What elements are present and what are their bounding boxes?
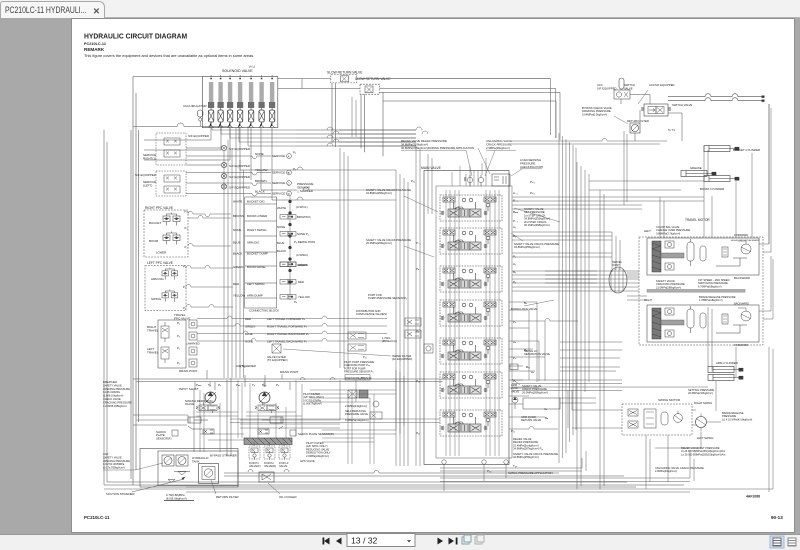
svg-text:LEFT TRAVEL BACKWARD Pₓ: LEFT TRAVEL BACKWARD Pₓ xyxy=(267,340,307,344)
svg-text:(A SPCL): (A SPCL) xyxy=(296,205,308,209)
PPC valve right (bucket/boom) xyxy=(144,206,188,257)
travel PPC valve T1 xyxy=(147,313,190,368)
svg-text:YELLOW: YELLOW xyxy=(233,294,245,298)
svg-text:LEFT SWING: LEFT SWING xyxy=(697,436,713,440)
title block xyxy=(84,33,783,520)
svg-text:BOOM RAISE: BOOM RAISE xyxy=(247,265,265,269)
connector joint J4 xyxy=(280,262,308,267)
svg-text:(A SPEC): (A SPEC) xyxy=(296,253,308,257)
boom lock holding box xyxy=(523,398,560,409)
node junction dots table xyxy=(288,200,291,284)
service valve block SV1 (right) xyxy=(143,133,210,165)
svg-text:RETURN VALVE: RETURN VALVE xyxy=(521,418,541,422)
last-page button xyxy=(449,538,458,545)
svg-text:BYPASS STRAINER: BYPASS STRAINER xyxy=(210,454,237,458)
svg-text:BROWN P₁: BROWN P₁ xyxy=(297,215,311,219)
solenoid S2 xyxy=(218,75,224,128)
svg-text:GREEN: GREEN xyxy=(245,325,255,329)
PPC valve left (arm/swing) xyxy=(145,261,187,311)
svg-text:HYDRAULIC CIRCUIT DIAGRAM: HYDRAULIC CIRCUIT DIAGRAM xyxy=(84,33,187,40)
travel motor assembly xyxy=(639,218,763,345)
svg-text:P₂: P₂ xyxy=(183,265,186,269)
annotation cap safety xyxy=(103,452,163,470)
svg-text:0.86MPa{3.7kgf/cm²}: 0.86MPa{3.7kgf/cm²} xyxy=(656,231,680,235)
pilot filter symbols xyxy=(348,390,357,398)
svg-text:REMARK: REMARK xyxy=(84,47,105,52)
svg-text:SWING: SWING xyxy=(151,297,162,301)
svg-text:TRAVEL: TRAVEL xyxy=(147,351,159,355)
svg-text:RIGHT TRAVEL FORWARD Pₓ: RIGHT TRAVEL FORWARD Pₓ xyxy=(267,325,307,329)
S/F coupler C xyxy=(221,173,291,185)
solenoid S7 xyxy=(269,75,275,128)
bucket cylinder xyxy=(704,146,760,153)
svg-text:To T1: To T1 xyxy=(668,128,675,132)
svg-text:P₂: P₂ xyxy=(293,167,297,171)
wire left ppc rows xyxy=(186,266,233,308)
main valve bottom ports xyxy=(442,460,508,464)
view-mode single xyxy=(788,538,796,546)
annotation safety valve set xyxy=(524,207,550,227)
svg-text:DRAIN PORT: DRAIN PORT xyxy=(179,369,198,373)
pump P1 xyxy=(205,392,216,403)
regulator R1 xyxy=(196,403,220,414)
svg-text:VALVE(F): VALVE(F) xyxy=(249,464,261,468)
svg-text:VALVE(R): VALVE(R) xyxy=(264,464,276,468)
svg-text:Bₐ: Bₐ xyxy=(545,416,549,420)
solenoid S4 xyxy=(237,75,243,128)
S/F coupler B xyxy=(221,162,297,175)
wire service rows xyxy=(186,148,271,196)
boom cylinder pair xyxy=(681,166,739,191)
travel motor unit R xyxy=(647,305,759,347)
pilot line label table xyxy=(245,197,277,308)
next-page button xyxy=(438,538,444,545)
switch valve SW1 xyxy=(641,103,693,116)
svg-text:{1.868.10kgf/cm²}: {1.868.10kgf/cm²} xyxy=(103,394,123,398)
svg-text:PC210LC-11: PC210LC-11 xyxy=(84,515,110,520)
annotation breather xyxy=(103,380,132,408)
annotation unloading valve xyxy=(485,139,516,176)
svg-text:SOLENOID VALVE: SOLENOID VALVE xyxy=(222,69,253,73)
svg-text:P₂: P₂ xyxy=(513,280,517,284)
connector joint J2 xyxy=(277,225,309,236)
svg-text:This figure covers the equipme: This figure covers the equipment and dev… xyxy=(84,53,254,58)
svg-text:26.0MPa{265kgf/cm²}: 26.0MPa{265kgf/cm²} xyxy=(366,241,392,245)
svg-text:LOWER: LOWER xyxy=(156,251,166,255)
wire table risers xyxy=(224,128,290,378)
svg-text:WHITE: WHITE xyxy=(277,206,286,210)
annotation setting pressure xyxy=(688,388,715,395)
wire mv right port stubs xyxy=(509,302,622,429)
svg-text:P₄: P₄ xyxy=(177,321,181,325)
wire srv2 lower run xyxy=(383,101,556,138)
center swivel joint xyxy=(609,260,627,293)
svg-text:Pₚ: Pₚ xyxy=(276,383,280,387)
distributor spool D2 xyxy=(348,344,366,351)
page-copy icon 2 xyxy=(475,535,484,544)
main valve module arm xyxy=(440,410,502,436)
solenoid S5 xyxy=(248,75,254,128)
svg-text:BLUE: BLUE xyxy=(245,332,253,336)
svg-text:CHECK VALVE: CHECK VALVE xyxy=(103,397,121,401)
svg-text:34.8MPa{287kgf/cm²} Pₘ: 34.8MPa{287kgf/cm²} Pₘ xyxy=(513,447,543,451)
svg-text:△ MARKED: △ MARKED xyxy=(297,189,314,193)
wire top-left feed xyxy=(131,77,202,480)
PPC pair swing xyxy=(162,290,178,302)
svg-text:MAIN VALVE: MAIN VALVE xyxy=(421,166,442,170)
svg-text:PUMP-PRESSURE SENSOR Pₚ: PUMP-PRESSURE SENSOR Pₚ xyxy=(368,296,408,300)
svg-text:GREEN: GREEN xyxy=(298,263,308,267)
svg-text:34.8MPa{255kgf/cm²}: 34.8MPa{255kgf/cm²} xyxy=(513,455,539,459)
page number box xyxy=(347,534,415,547)
main valve module arm-hi xyxy=(440,338,502,364)
svg-text:SLOW RETURN VALVE: SLOW RETURN VALVE xyxy=(327,71,363,75)
wire travel crossover pipe xyxy=(647,290,745,293)
node arrow A1 xyxy=(762,96,765,102)
slow return valve SRV1 xyxy=(327,71,363,83)
GPS valve 2 xyxy=(264,446,275,460)
svg-text:BOOM LOCK VALVE: BOOM LOCK VALVE xyxy=(511,307,537,311)
svg-text:BLUE: BLUE xyxy=(233,241,241,245)
svg-text:21.0MPa{286kgf/cm²}: 21.0MPa{286kgf/cm²} xyxy=(656,285,681,289)
svg-text:BLACK: BLACK xyxy=(277,249,286,253)
svg-text:P₃: P₃ xyxy=(185,226,188,230)
page-copy icon 1 xyxy=(462,535,471,544)
svg-text:CRACKING PRESSURE: CRACKING PRESSURE xyxy=(103,400,132,404)
svg-text:SERVICE: SERVICE xyxy=(272,171,285,175)
wire top bus to right arrows xyxy=(332,79,560,157)
accumulator ACC3 xyxy=(638,83,675,104)
svg-text:BUCKET DUMP: BUCKET DUMP xyxy=(247,252,268,256)
svg-text:SERVICE: SERVICE xyxy=(272,181,285,185)
svg-text:S/F EQUIPPED: S/F EQUIPPED xyxy=(188,134,210,138)
annotation swing lo xyxy=(524,349,550,356)
pilot filter note xyxy=(306,441,331,458)
solenoid S3 xyxy=(227,75,233,128)
svg-text:S/F EQUIPPED: S/F EQUIPPED xyxy=(597,86,617,90)
svg-text:Pₖₗ₁: Pₖₗ₁ xyxy=(530,191,535,195)
svg-text:C: C xyxy=(288,181,290,185)
svg-text:Pₒ: Pₒ xyxy=(513,320,517,324)
svg-text:GREASE: GREASE xyxy=(690,166,702,170)
wire pilot comb extension xyxy=(212,126,416,146)
svg-text:SWING PRESSURE APPLICATION: SWING PRESSURE APPLICATION xyxy=(508,471,553,475)
wire switch valve to tank arrows xyxy=(668,94,762,101)
toolbar icons xyxy=(323,534,797,549)
svg-text:P₃: P₃ xyxy=(177,334,180,338)
svg-text:P₁₁: P₁₁ xyxy=(416,431,420,435)
svg-text:RIGHT TRAVEL BACKWARD Pₒ: RIGHT TRAVEL BACKWARD Pₒ xyxy=(267,332,310,336)
svg-text:NONE P₂: NONE P₂ xyxy=(297,232,309,236)
PPC pair bucket xyxy=(163,213,180,226)
svg-text:P₂: P₂ xyxy=(177,361,180,365)
svg-text:TRAVEL: TRAVEL xyxy=(147,329,159,333)
solenoid valve block V1 xyxy=(202,69,277,128)
svg-text:B₂: B₂ xyxy=(513,270,517,274)
svg-text:INPUT SHAFT: INPUT SHAFT xyxy=(179,387,199,391)
wire bundle bottom rows xyxy=(104,347,773,492)
svg-text:GPS VALVE: GPS VALVE xyxy=(300,459,315,463)
svg-text:(1F EQUIPPED): (1F EQUIPPED) xyxy=(392,357,412,361)
swing port circle xyxy=(512,397,518,409)
svg-text:BOOM LOWER: BOOM LOWER xyxy=(247,214,267,218)
wire service top rail xyxy=(133,123,229,126)
svg-text:D: D xyxy=(288,192,290,196)
svg-text:0.166.010MPa: 0.166.010MPa xyxy=(103,390,120,394)
annotation swing relief xyxy=(681,446,726,456)
svg-text:RETURN FILTER: RETURN FILTER xyxy=(627,119,649,123)
svg-text:RIGHT(1): RIGHT(1) xyxy=(143,157,156,161)
svg-text:4AF1088: 4AF1088 xyxy=(746,495,760,499)
svg-text:(A.L): (A.L) xyxy=(249,65,255,69)
manifold hatched block xyxy=(244,438,292,445)
svg-text:SAFETY VALVE: SAFETY VALVE xyxy=(103,383,122,387)
annotation arm quick return xyxy=(521,415,541,422)
svg-text:B: B xyxy=(288,171,290,175)
svg-text:SWING MOTOR: SWING MOTOR xyxy=(658,398,681,402)
svg-text:RIGHT SWING: RIGHT SWING xyxy=(694,401,712,405)
svg-text:A₂: A₂ xyxy=(513,262,517,266)
svg-text:CONFLUENCE VALVE(S): CONFLUENCE VALVE(S) xyxy=(356,312,387,316)
svg-text:A₋₁: A₋₁ xyxy=(513,191,518,195)
main valve module boom-hi xyxy=(440,228,502,254)
svg-text:BUCKET DIG: BUCKET DIG xyxy=(247,200,265,204)
svg-text:Pₐₐ: Pₐₐ xyxy=(236,383,241,387)
svg-text:S/F EQUIPPED: S/F EQUIPPED xyxy=(655,83,675,87)
wire bundle mv to swivel xyxy=(512,232,639,291)
prev-page button xyxy=(336,538,342,545)
svg-text:ARM DUMP: ARM DUMP xyxy=(247,294,263,298)
svg-text:VALVE: VALVE xyxy=(279,464,287,468)
hydraulic tank xyxy=(140,449,238,488)
svg-text:BUCKET CYLINDER: BUCKET CYLINDER xyxy=(733,148,760,152)
wire bundle mv-right verticals xyxy=(559,131,627,489)
svg-text:P₁: P₁ xyxy=(513,255,516,259)
annotation safety crack 1 xyxy=(514,242,559,249)
svg-text:SUCTION STRAINER: SUCTION STRAINER xyxy=(106,492,134,496)
GPS valve 1 xyxy=(249,446,260,460)
main valve module swing xyxy=(440,372,502,398)
wire bundle travel motor links xyxy=(545,104,773,489)
annotation swing brake xyxy=(722,411,752,421)
svg-text:PC210LC-11: PC210LC-11 xyxy=(84,42,106,46)
wire ppc right out xyxy=(188,212,231,247)
service valve block SV2 (left) xyxy=(135,171,186,196)
svg-text:Pₖₗ₂: Pₖₗ₂ xyxy=(530,180,536,184)
confluence valve boxes xyxy=(405,318,433,353)
svg-text:90-13: 90-13 xyxy=(771,515,783,520)
svg-text:{8.0{9.0}kgf/cm²}: {8.0{9.0}kgf/cm²} xyxy=(166,496,187,500)
svg-text:36.1MPa{368kgf/cm²}: 36.1MPa{368kgf/cm²} xyxy=(524,223,550,227)
svg-text:34.8MPa{255kgf/cm²}: 34.8MPa{255kgf/cm²} xyxy=(514,245,540,249)
svg-text:BLUE: BLUE xyxy=(277,241,284,245)
svg-text:RETURN FILTER: RETURN FILTER xyxy=(216,495,239,499)
wire travel rows xyxy=(197,316,387,341)
svg-text:2.6MPa{24kgf/cm²}: 2.6MPa{24kgf/cm²} xyxy=(306,454,329,458)
svg-text:SERVICE: SERVICE xyxy=(272,154,285,158)
svg-text:Bₛ₁: Bₛ₁ xyxy=(526,365,530,369)
svg-text:VALVE: VALVE xyxy=(185,402,194,406)
svg-text:0.04MPa{0.5kgf/cm²}: 0.04MPa{0.5kgf/cm²} xyxy=(582,112,607,116)
annotation relief bottom xyxy=(513,437,558,459)
PPC pair arm xyxy=(162,268,178,280)
svg-text:A₁: A₁ xyxy=(513,225,516,229)
svg-text:BROWN: BROWN xyxy=(233,214,244,218)
svg-text:△MARKED: △MARKED xyxy=(186,342,200,346)
svg-text:PRESSURE SENSOR Pₐ: PRESSURE SENSOR Pₐ xyxy=(344,370,373,374)
svg-text:36.8MPa{375kgf/cm²}DURING PRES: 36.8MPa{375kgf/cm²}DURING PRESSURE APPLI… xyxy=(401,146,474,150)
svg-text:RIGHT PPC VALVE: RIGHT PPC VALVE xyxy=(145,206,173,210)
bypass strainer xyxy=(199,454,237,484)
svg-text:VALVE: VALVE xyxy=(511,389,519,393)
connector joint J1 xyxy=(277,205,311,219)
svg-text:Tₚ: Tₚ xyxy=(252,383,256,387)
svg-text:YELLOW: YELLOW xyxy=(298,295,310,299)
svg-text:BOOM: BOOM xyxy=(149,239,159,243)
svg-text:Pₚₐ: Pₚₐ xyxy=(262,383,267,387)
svg-text:{26.5kw/cm²}: {26.5kw/cm²} xyxy=(382,339,397,343)
svg-text:P₄₁: P₄₁ xyxy=(363,355,367,359)
distributor spool D1 xyxy=(348,332,366,339)
unloading valve UV1 xyxy=(464,174,510,187)
svg-text:P₄: P₄ xyxy=(183,306,187,310)
regulator R2 xyxy=(255,403,279,414)
svg-text:Pₑ: Pₑ xyxy=(294,300,297,304)
svg-text:SAFETY VALVE: SAFETY VALVE xyxy=(103,455,122,459)
strainer SC2 xyxy=(176,455,188,466)
svg-text:P₁₁: P₁₁ xyxy=(511,429,515,433)
svg-text:LEFT: LEFT xyxy=(644,229,651,233)
wire pump area grid xyxy=(196,370,440,464)
svg-text:CONNECTING BLOCK: CONNECTING BLOCK xyxy=(249,309,279,313)
svg-text:T₃ₒ: T₃ₒ xyxy=(513,464,518,468)
svg-text:BLACK: BLACK xyxy=(233,252,243,256)
svg-text:0.98MPa{10kgf/cm²}: 0.98MPa{10kgf/cm²} xyxy=(345,418,369,422)
svg-text:CHECKING PORT: CHECKING PORT xyxy=(520,165,544,169)
svg-text:P₁: P₁ xyxy=(183,285,186,289)
svg-text:YELLOW: YELLOW xyxy=(255,168,268,172)
svg-text:A: A xyxy=(288,154,290,158)
self reducing valve symbol xyxy=(373,401,379,407)
svg-text:BROWN: BROWN xyxy=(255,179,267,183)
svg-text:26.0MPa{265kgf/cm²}: 26.0MPa{265kgf/cm²} xyxy=(522,390,548,394)
slow return valve SRV2 xyxy=(355,77,391,94)
svg-text:LEFT PPC VALVE: LEFT PPC VALVE xyxy=(147,261,173,265)
svg-text:GREEN: GREEN xyxy=(233,265,243,269)
svg-text:RED: RED xyxy=(233,282,239,286)
main valve module boom xyxy=(440,300,502,326)
travel motor unit L xyxy=(647,238,760,275)
svg-text:B₋₁: B₋₁ xyxy=(513,199,518,203)
accumulator ACC1 xyxy=(183,104,207,126)
wire main valve supply verticals xyxy=(446,158,499,456)
sensor shock plate left xyxy=(156,430,178,440)
inline filter F2 xyxy=(267,344,412,362)
oil cooler xyxy=(259,472,297,499)
wire pilot bus hops xyxy=(296,130,416,200)
annotation load sensing port xyxy=(511,158,544,176)
svg-text:FORWARD: FORWARD xyxy=(734,343,748,347)
annotation brake release xyxy=(644,295,749,306)
svg-text:Pₚ: Pₚ xyxy=(513,356,517,360)
servo piston S2 xyxy=(258,417,283,434)
svg-text:BACKWARD: BACKWARD xyxy=(734,276,750,280)
inline check valves column xyxy=(186,320,200,367)
svg-text:ARM CYLINDER: ARM CYLINDER xyxy=(716,361,738,365)
pilot table texts xyxy=(233,200,268,256)
svg-text:PRESSURE VALVE: PRESSURE VALVE xyxy=(345,412,368,416)
annotation safety left 1 xyxy=(366,188,411,195)
svg-text:ARM DIG: ARM DIG xyxy=(151,277,165,281)
connecting block texts xyxy=(233,265,279,313)
main valve module bucket xyxy=(440,195,502,221)
return filter note xyxy=(164,480,239,501)
svg-text:P₁₆: P₁₆ xyxy=(416,379,421,383)
svg-text:2.9MPa{30kgf/cm²}: 2.9MPa{30kgf/cm²} xyxy=(655,469,677,473)
return filter RF1 xyxy=(627,119,675,133)
svg-text:BUCKET: BUCKET xyxy=(149,221,161,225)
S/F coupler D xyxy=(221,182,313,196)
annotation relief valve top xyxy=(401,139,474,176)
servo piston S1 xyxy=(188,417,214,434)
annotation arm lock xyxy=(511,383,548,394)
svg-text:RED: RED xyxy=(298,280,304,284)
svg-text:Lo 26.0{0.98}MPa{265{10}kgf/cm: Lo 26.0{0.98}MPa{265{10}kgf/cm²}/A/s xyxy=(681,452,726,456)
svg-text:LEFT SWING: LEFT SWING xyxy=(247,282,265,286)
svg-text:13 / 32: 13 / 32 xyxy=(351,536,378,546)
svg-text:34.8MPa{255kgf/cm²}: 34.8MPa{255kgf/cm²} xyxy=(366,191,392,195)
svg-text:ARM DIG: ARM DIG xyxy=(247,241,260,245)
svg-text:Bₘₙ: Bₘₙ xyxy=(513,210,519,214)
svg-text:S/F EQUIPPED: S/F EQUIPPED xyxy=(135,173,157,177)
accumulator ACC2 xyxy=(597,78,635,99)
annotation distributor xyxy=(356,309,387,316)
S/F coupler A xyxy=(221,145,296,158)
main valve port labels right xyxy=(487,180,549,473)
travel valve unit right xyxy=(161,322,169,363)
svg-text:SERVICE: SERVICE xyxy=(272,192,285,196)
sensor shock plate right xyxy=(290,430,334,436)
svg-text:2.0MPa{24kgf/cm²}: 2.0MPa{24kgf/cm²} xyxy=(345,404,367,408)
svg-text:ACCUMULATOR: ACCUMULATOR xyxy=(183,104,207,108)
solenoid S1 xyxy=(208,75,214,128)
svg-text:P₃ DEMOLITION: P₃ DEMOLITION xyxy=(294,240,315,244)
pump P2 xyxy=(259,392,270,403)
view-mode continuous (selected) xyxy=(770,536,784,548)
annotation safety left 2 xyxy=(366,238,411,245)
svg-text:(TF EQUIPPED): (TF EQUIPPED) xyxy=(267,358,288,362)
svg-text:SLOW RETURN VALVE: SLOW RETURN VALVE xyxy=(355,77,391,81)
PPC pair boom xyxy=(163,232,180,245)
svg-text:WHITE: WHITE xyxy=(233,200,242,204)
svg-text:HIGH/LOW DISPLACEMENT: HIGH/LOW DISPLACEMENT xyxy=(731,239,760,242)
solenoid S6 xyxy=(259,75,265,128)
wire bottom tank bus xyxy=(104,130,684,487)
svg-text:Pₐₐₐ: Pₐₐₐ xyxy=(196,383,202,387)
arm cylinder xyxy=(708,361,743,381)
svg-text:PRESSURE SENSOR: PRESSURE SENSOR xyxy=(346,376,372,380)
svg-text:(L) 4.10 MPa{41.8kgf/cm²}: (L) 4.10 MPa{41.8kgf/cm²} xyxy=(722,417,752,421)
connector joint J5 xyxy=(280,280,304,285)
wire pump to mv links xyxy=(133,378,365,429)
svg-text:P₂: P₂ xyxy=(185,245,188,249)
connector joint J6 xyxy=(280,295,310,305)
main valve outer box xyxy=(421,166,512,465)
annotation unloading crack bottom xyxy=(655,466,704,473)
svg-text:P₂₁: P₂₁ xyxy=(411,179,415,183)
svg-text:SENSOR(F): SENSOR(F) xyxy=(156,436,171,440)
svg-text:BREATHER: BREATHER xyxy=(103,380,117,384)
